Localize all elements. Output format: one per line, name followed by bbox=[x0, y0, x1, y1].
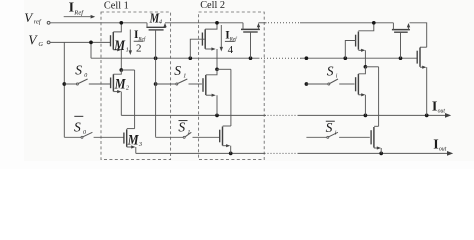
svg-text:S: S bbox=[174, 63, 181, 78]
svg-text:S: S bbox=[327, 64, 334, 79]
svg-text:Ref: Ref bbox=[73, 10, 84, 17]
svg-text:1: 1 bbox=[187, 130, 190, 136]
svg-text:4: 4 bbox=[228, 44, 234, 56]
svg-text:ref: ref bbox=[34, 19, 42, 26]
svg-text:Cell 1: Cell 1 bbox=[104, 1, 129, 12]
svg-text:M: M bbox=[114, 76, 126, 92]
svg-text:1: 1 bbox=[126, 46, 129, 53]
svg-text:out: out bbox=[439, 146, 447, 152]
svg-text:0: 0 bbox=[83, 130, 86, 136]
svg-text:S: S bbox=[74, 120, 81, 135]
svg-text:M: M bbox=[113, 38, 125, 54]
svg-text:3: 3 bbox=[138, 141, 142, 148]
svg-text:I: I bbox=[433, 138, 438, 153]
svg-text:S: S bbox=[178, 120, 185, 135]
svg-text:4: 4 bbox=[159, 18, 162, 25]
svg-text:G: G bbox=[38, 41, 43, 48]
svg-text:M: M bbox=[127, 132, 139, 148]
svg-text:out: out bbox=[438, 108, 446, 114]
svg-text:I: I bbox=[69, 1, 74, 16]
svg-text:S: S bbox=[326, 120, 333, 135]
svg-text:S: S bbox=[75, 63, 82, 78]
svg-text:1: 1 bbox=[183, 73, 186, 79]
svg-text:0: 0 bbox=[84, 73, 87, 79]
svg-text:2: 2 bbox=[136, 42, 142, 54]
svg-text:Cell 2: Cell 2 bbox=[200, 0, 225, 11]
svg-text:I: I bbox=[432, 100, 437, 115]
